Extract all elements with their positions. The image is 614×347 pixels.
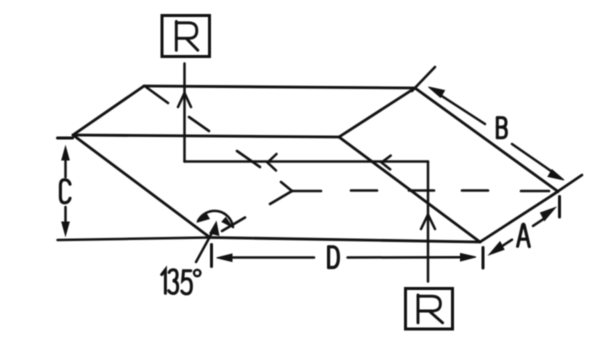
ray arrow up (bottom) [421, 215, 435, 230]
ray vertical top segment [183, 64, 186, 162]
label 135 deg [162, 270, 201, 294]
edge A1-B1 (left 45 deg end) [73, 135, 210, 238]
edge A2-A3 (top back edge) [144, 86, 415, 88]
ray arrow up (top) [178, 93, 191, 107]
hidden edge A2-B2 dashed [146, 87, 292, 191]
ray horizontal segment [185, 160, 429, 163]
dim C lower arrow [62, 207, 69, 236]
ray vertical bottom segment [427, 162, 430, 282]
dim C tick at A1 [58, 137, 73, 140]
dim A line upper part with arrow [533, 208, 556, 226]
dim C extension line bottom [58, 238, 211, 241]
ray arrow left 2 [382, 156, 391, 170]
dim B line upper part with arrow [429, 87, 486, 124]
edge A1-A2 (top face left slant) [73, 86, 144, 135]
label C [60, 180, 70, 203]
edge B4-B3 (bottom right edge) [480, 192, 558, 243]
dim D left tick [210, 245, 213, 267]
angle 135 leader arrowhead [209, 221, 220, 237]
dim B extension stub at A3 [412, 67, 435, 91]
dim B extension tick at B3 [551, 175, 582, 196]
dim B line lower part with arrow [512, 144, 564, 180]
dim D line left part with arrow [217, 254, 315, 262]
dim A line lower part with arrow [489, 240, 512, 255]
angle 135 leader line [196, 231, 213, 262]
letter R bottom [418, 295, 443, 323]
angle arc right arrowhead [221, 217, 234, 229]
dim D line right part with arrow [348, 254, 477, 262]
ray arrow left 1 [268, 154, 277, 171]
dim D right tick / dim A lower tick [482, 248, 485, 269]
label B [497, 118, 506, 138]
edge A4-B4 (right 45 deg end) [339, 137, 480, 242]
hidden edge B2-B1 dashed [222, 191, 292, 231]
angle 135 arc [198, 211, 233, 227]
hidden edge B2-B3 dashed [292, 189, 549, 192]
angle arc left arrowhead [196, 213, 210, 223]
edge A1-A4 (top front edge) [73, 135, 339, 137]
R box top [162, 16, 210, 57]
letter R top [176, 22, 198, 51]
edge A3-B3 (back right end) [415, 88, 558, 192]
R box bottom [406, 289, 453, 330]
edge A3-A4 (top face right slant) [339, 88, 415, 137]
label D [329, 247, 339, 268]
edge B1-B4 (bottom front edge) [210, 238, 480, 243]
dim A upper tick [558, 197, 561, 218]
label A [518, 224, 530, 246]
dim C upper arrow [62, 147, 69, 178]
